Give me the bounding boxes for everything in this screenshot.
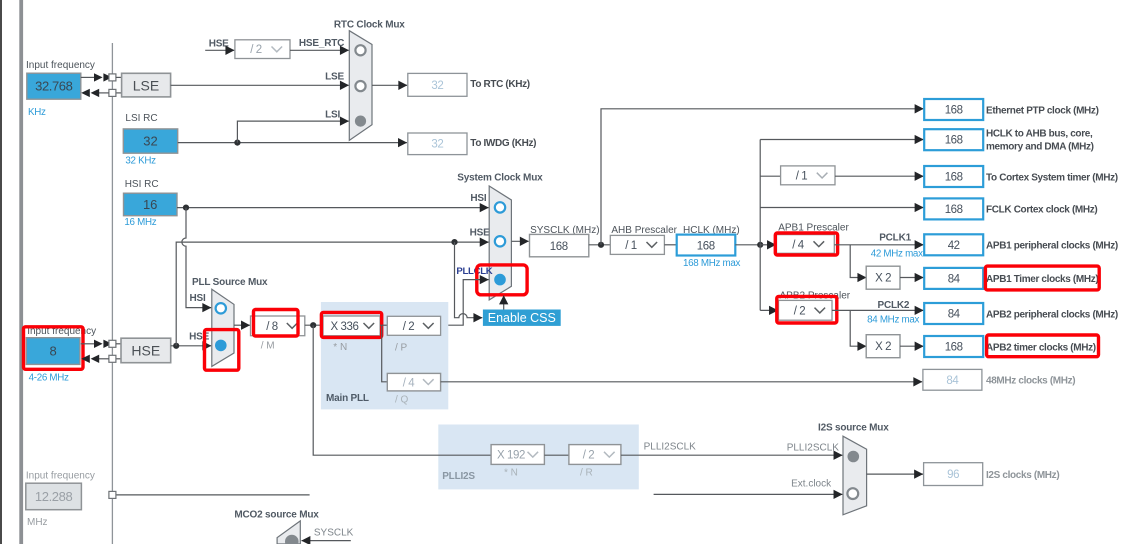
output box Cortex timer 168: [924, 166, 983, 187]
wire: SYSCLK into MCO2 mux: [302, 540, 351, 542]
svg-text:AHB Prescaler: AHB Prescaler: [611, 225, 677, 236]
svg-text:X 192: X 192: [497, 450, 525, 462]
svg-text:84: 84: [946, 375, 959, 387]
svg-text:42: 42: [948, 240, 960, 252]
wire: HSE up to system clock mux: [176, 242, 488, 346]
I2S mux input PLLI2SCLK (selected): [848, 451, 860, 463]
red highlight: APB1 prescaler: [775, 233, 837, 255]
wire: SYSCLK to AHB prescaler: [589, 244, 611, 246]
wire: HCLK to FCLK output: [760, 207, 923, 209]
svg-text:32 KHz: 32 KHz: [125, 156, 156, 167]
svg-text:To Cortex System timer (MHz): To Cortex System timer (MHz): [986, 172, 1118, 183]
svg-text:16: 16: [143, 197, 157, 212]
svg-text:4-26 MHz: 4-26 MHz: [29, 373, 69, 384]
svg-text:X 2: X 2: [875, 273, 891, 285]
output box APB2 peripheral 84: [924, 303, 983, 324]
junction on HSE wire: [173, 343, 179, 349]
wire: HCLK to cortex timer divider: [760, 175, 780, 177]
wire: branch N to /Q divider: [382, 325, 388, 382]
svg-text:X 336: X 336: [330, 321, 358, 333]
wire: HSE to PLL source mux: [171, 345, 212, 347]
divider /M value /8: [251, 316, 305, 336]
wire: HSE branch to Enable CSS (hop): [455, 242, 483, 318]
svg-text:12.288: 12.288: [35, 489, 73, 504]
svg-text:84: 84: [948, 309, 961, 321]
svg-text:Ext.clock: Ext.clock: [791, 479, 832, 490]
main PLL region background: [321, 302, 448, 409]
wire: input to LSE (double arrow right): [81, 76, 95, 78]
svg-text:Enable CSS: Enable CSS: [488, 311, 556, 325]
svg-text:HSE: HSE: [131, 343, 160, 359]
mux PLL Source Mux: [212, 289, 234, 366]
PLL mux input HSE (selected): [215, 340, 227, 352]
svg-text:System Clock Mux: System Clock Mux: [457, 173, 543, 184]
RTC mux input HSE_RTC (open): [355, 45, 365, 55]
svg-text:/ 2: / 2: [250, 44, 262, 56]
I2S ext input frequency box 12.288: [26, 483, 82, 510]
svg-text:48MHz clocks (MHz): 48MHz clocks (MHz): [986, 376, 1075, 387]
svg-text:LSI: LSI: [325, 110, 340, 121]
wire: HCLK to distribution: [735, 244, 760, 246]
output box APB2 timer 168: [924, 336, 983, 357]
svg-text:168: 168: [550, 241, 568, 253]
red highlight: SCM PLLCLK selection: [477, 265, 527, 295]
wire: HSE stub to RTC divider: [205, 49, 234, 51]
output box FCLK 168: [924, 198, 983, 219]
wire: SCM to SYSCLK box: [511, 240, 528, 242]
svg-text:32: 32: [143, 134, 157, 149]
mux RTC Clock Mux: [349, 31, 372, 141]
wire: X2 to APB2 timer output: [900, 345, 924, 347]
multiplier *N value X192 (inactive): [491, 445, 544, 465]
svg-text:APB2 timer clocks (MHz): APB2 timer clocks (MHz): [986, 342, 1096, 353]
mux I2S source Mux: [843, 436, 867, 515]
oscillator HSE box: [121, 338, 171, 363]
divider APB2 /2: [779, 300, 833, 320]
wire: AHB prescaler to HCLK: [664, 244, 676, 246]
page frame left dark edge: [0, 0, 2, 544]
output box To IWDG 32: [408, 133, 467, 155]
svg-text:168: 168: [945, 204, 963, 216]
wire: /M to *N: [305, 324, 323, 326]
divider APB1 /4: [777, 235, 835, 254]
output box APB1 timer 84: [924, 268, 983, 289]
svg-text:HSE: HSE: [209, 39, 229, 50]
svg-text:Input frequency: Input frequency: [26, 471, 95, 482]
wire: HSI to system clock mux: [177, 207, 489, 209]
output box HCLK AHB 168: [924, 129, 983, 150]
wire: I2S mux to output: [867, 473, 923, 475]
wire: PLL M output down to PLLI2S: [313, 325, 491, 455]
svg-text:memory and DMA (MHz): memory and DMA (MHz): [986, 142, 1094, 153]
svg-text:RTC Clock Mux: RTC Clock Mux: [334, 20, 405, 31]
wire: LSI to IWDG: [178, 142, 407, 144]
svg-text:32: 32: [431, 139, 443, 151]
LSI RC value box 32: [123, 129, 177, 153]
wire: /Q to 48MHz output: [441, 381, 923, 383]
wire: APB2 prescaler to PCLK2 output: [832, 309, 924, 311]
svg-text:32.768: 32.768: [35, 79, 73, 94]
red highlight: PLL mux HSE selection: [205, 330, 239, 371]
wire: P output to SCM PLLCLK input: [441, 280, 489, 326]
svg-text:MCO2 source Mux: MCO2 source Mux: [234, 510, 319, 521]
wire: X2 to APB1 timer output: [900, 277, 924, 279]
svg-text:32: 32: [431, 80, 443, 92]
mux MCO2 source Mux (partial): [277, 521, 300, 544]
output box Ethernet PTP 168: [924, 99, 983, 120]
svg-text:PCLK2: PCLK2: [878, 300, 910, 311]
wire: X192 to /R: [544, 454, 569, 456]
red highlight: *N multiplier: [321, 312, 381, 337]
svg-text:HSI: HSI: [470, 193, 486, 204]
svg-text:KHz: KHz: [28, 107, 46, 118]
svg-text:42 MHz max: 42 MHz max: [871, 249, 923, 260]
I2S mux input Ext.clock (open): [847, 488, 858, 499]
red highlight: APB2 timer label: [987, 335, 1099, 357]
svg-text:/ 2: / 2: [403, 321, 415, 333]
LSE input frequency value box 32.768: [27, 73, 81, 99]
divider /2 (HSE RTC): [235, 40, 290, 59]
svg-text:LSE: LSE: [325, 72, 344, 83]
svg-text:I2S clocks (MHz): I2S clocks (MHz): [986, 470, 1059, 481]
HSE input frequency value box 8: [26, 338, 80, 365]
svg-text:84 MHz max: 84 MHz max: [867, 314, 919, 325]
svg-text:/ 4: / 4: [792, 239, 805, 251]
junction on HSI wire: [183, 205, 189, 211]
svg-text:PLL Source Mux: PLL Source Mux: [192, 277, 268, 288]
svg-text:/ P: / P: [395, 343, 408, 354]
multiplier *N value X336: [323, 316, 380, 336]
SCM input PLLCLK (selected): [494, 274, 506, 286]
multiplier X2 (APB1 timers): [866, 266, 900, 289]
wire: divider to RTC mux: [290, 49, 349, 51]
svg-text:/ M: / M: [261, 341, 275, 352]
junction: PLLI2S feed: [310, 322, 316, 328]
svg-text:HSI: HSI: [190, 293, 206, 304]
wire: HCLK distribution vertical: [759, 140, 761, 311]
divider /Q value /4 (inactive): [387, 373, 440, 391]
red highlight: APB2 prescaler: [777, 296, 837, 323]
svg-text:To IWDG (KHz): To IWDG (KHz): [470, 138, 536, 149]
output box To RTC 32: [408, 73, 467, 96]
svg-text:96: 96: [947, 469, 959, 481]
junction: ethernet branch: [598, 242, 604, 248]
svg-text:/ R: / R: [580, 468, 593, 479]
wire: arrow into APB1 prescaler: [760, 244, 776, 246]
svg-text:PCLK1: PCLK1: [879, 233, 911, 244]
svg-text:X 2: X 2: [875, 341, 891, 353]
RTC mux input LSI (selected): [355, 116, 366, 127]
pin square on trunk (ext clock): [116, 494, 310, 496]
svg-text:168: 168: [945, 135, 963, 147]
svg-text:I2S source Mux: I2S source Mux: [818, 423, 889, 434]
svg-text:To RTC (KHz): To RTC (KHz): [470, 79, 530, 90]
svg-text:/ 4: / 4: [403, 377, 416, 389]
mux System Clock Mux: [489, 186, 511, 300]
wire: branch to APB1 X2: [850, 245, 866, 278]
svg-text:LSI RC: LSI RC: [125, 113, 157, 124]
svg-text:/ 2: / 2: [583, 450, 595, 462]
svg-text:HSE: HSE: [189, 332, 209, 343]
wire: HSE return (double arrow left): [116, 358, 121, 360]
svg-text:APB1 peripheral clocks (MHz): APB1 peripheral clocks (MHz): [986, 241, 1118, 252]
divider AHB /1: [610, 235, 664, 254]
wire: /R to I2S mux: [621, 454, 843, 456]
pin square on trunk (LSE out): [109, 89, 116, 96]
SCM input HSE (open): [495, 236, 505, 246]
svg-text:84: 84: [948, 273, 961, 285]
pin square on trunk (HSE in): [109, 340, 116, 347]
svg-text:/ Q: / Q: [395, 395, 409, 406]
wire: LSE to RTC mux: [171, 84, 349, 86]
svg-text:Main PLL: Main PLL: [326, 393, 369, 404]
red highlight: /M divider: [254, 310, 299, 337]
multiplier X2 (APB2 timers): [866, 335, 900, 358]
svg-text:PLLI2SCLK: PLLI2SCLK: [787, 443, 840, 454]
wire: APB1 prescaler to PCLK1 output: [834, 244, 923, 246]
red highlight: APB1 timer label: [985, 266, 1099, 290]
wire: LSE return (double arrow left): [116, 92, 122, 94]
svg-text:/ 8: / 8: [266, 321, 278, 333]
wire: ext clock to I2S mux: [654, 493, 843, 495]
wire: branch to APB2 X2: [850, 310, 866, 346]
svg-text:MHz: MHz: [27, 517, 48, 528]
junction on LSI wire: [234, 140, 240, 146]
divider /R value /2 (inactive): [569, 445, 621, 465]
wire: input to HSE (double arrow right): [81, 343, 95, 345]
svg-text:* N: * N: [333, 342, 347, 353]
svg-text:HSE_RTC: HSE_RTC: [299, 38, 344, 49]
SCM input HSI (open): [495, 202, 505, 212]
SYSCLK value box 168: [530, 234, 589, 256]
output box 48MHz clocks 84 (inactive): [923, 369, 982, 390]
wire: HCLK to AHB bus output: [760, 139, 923, 141]
left thick grey panel bar: [19, 0, 23, 544]
divider cortex /1: [781, 166, 835, 185]
svg-text:168: 168: [945, 342, 963, 354]
svg-text:/ 1: / 1: [796, 171, 808, 183]
pin square on trunk (LSE in): [109, 74, 116, 81]
svg-text:* N: * N: [504, 468, 518, 479]
svg-text:Ethernet PTP clock (MHz): Ethernet PTP clock (MHz): [986, 105, 1099, 116]
RTC mux input LSE (open): [355, 81, 365, 91]
svg-text:LSE: LSE: [133, 78, 159, 94]
divider /P value /2: [387, 316, 440, 335]
wire: *N to /P: [380, 324, 387, 326]
svg-text:HSI RC: HSI RC: [125, 179, 159, 190]
wire: LSI branch up to RTC mux: [237, 121, 348, 143]
junction: CSS branch on HSE wire: [451, 239, 457, 245]
oscillator LSE box: [122, 73, 171, 97]
wire: arrow into APB2 prescaler: [760, 309, 778, 311]
output box I2S clocks 96 (inactive): [924, 463, 983, 486]
svg-text:APB1 Timer clocks (MHz): APB1 Timer clocks (MHz): [986, 274, 1098, 285]
svg-text:168 MHz max: 168 MHz max: [683, 258, 741, 269]
svg-text:PLLCLK: PLLCLK: [456, 266, 492, 277]
wire: PLL mux to /M divider: [234, 324, 250, 326]
svg-text:168: 168: [945, 172, 963, 184]
svg-text:HSE: HSE: [470, 227, 490, 238]
svg-text:8: 8: [49, 344, 56, 359]
wire: RTC mux to RTC output box: [372, 84, 407, 86]
svg-text:FCLK Cortex clock (MHz): FCLK Cortex clock (MHz): [986, 205, 1097, 216]
svg-text:/ 2: / 2: [794, 306, 806, 318]
red highlight: HSE input frequency: [24, 327, 84, 370]
svg-text:Input frequency: Input frequency: [26, 60, 95, 71]
svg-text:16 MHz: 16 MHz: [124, 217, 156, 228]
wire: Enable CSS up-arrow to SCM: [503, 296, 505, 310]
PLL mux input HSI (open): [216, 303, 226, 313]
junction: HCLK distribution: [757, 242, 763, 248]
svg-text:/ 1: / 1: [625, 240, 637, 252]
svg-text:APB2 peripheral clocks (MHz): APB2 peripheral clocks (MHz): [986, 309, 1118, 320]
wire: HSI down to PLL source mux (hop over HSE wire): [182, 208, 211, 308]
PLLI2S region background: [438, 425, 639, 490]
output box APB1 peripheral 42: [924, 234, 983, 255]
HCLK value box 168: [677, 235, 736, 256]
svg-text:PLLI2S: PLLI2S: [442, 471, 475, 482]
chip boundary trunk line: [111, 43, 113, 544]
svg-text:168: 168: [697, 240, 715, 252]
svg-text:PLLI2SCLK: PLLI2SCLK: [644, 442, 697, 453]
svg-text:SYSCLK: SYSCLK: [314, 527, 354, 538]
wire: SYSCLK up to ethernet PTP output: [601, 109, 924, 245]
svg-text:HCLK to AHB bus, core,: HCLK to AHB bus, core,: [986, 129, 1093, 140]
HSI RC value box 16: [124, 193, 178, 216]
svg-text:168: 168: [945, 105, 963, 117]
pin square on trunk (HSE out): [109, 355, 116, 362]
wire: cortex divider to output: [835, 175, 924, 177]
button Enable CSS: [483, 310, 561, 326]
wire square to LSE box: [116, 76, 122, 78]
MCO2 mux input SYSCLK (selected): [285, 535, 299, 544]
